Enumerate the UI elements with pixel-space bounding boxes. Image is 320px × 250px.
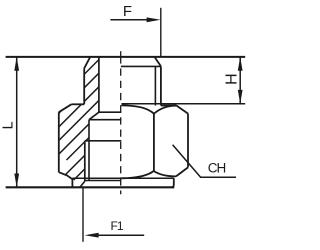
F dimension line (110, 19, 148, 21)
boss left wall (83, 68, 85, 104)
hex top ledge left (71, 103, 84, 105)
hex top chamfer arc center face (122, 105, 154, 113)
centerline (120, 51, 122, 63)
hex top-left chamfer (59, 104, 72, 112)
cone base line (89, 119, 121, 121)
boss right wall (160, 66, 162, 105)
boss right chamfer (155, 57, 161, 66)
thread end line (85, 180, 121, 182)
mid bore wall / thread line (88, 120, 90, 181)
L arrow up (14, 57, 19, 71)
H arrow up (238, 57, 243, 71)
port bottom line (99, 111, 121, 113)
F1 arrow left (85, 233, 99, 238)
F arrow right (147, 17, 161, 22)
hatching section lines (39, 20, 174, 200)
hex top chamfer arc right face (154, 106, 177, 114)
hex bottom chamfer arc center face (120, 171, 154, 178)
collar right wall (171, 178, 174, 187)
L dimension line (16, 57, 18, 187)
hex top-right chamfer (176, 106, 188, 114)
boss thread root line (154, 66, 156, 105)
L arrow down (14, 174, 19, 188)
hex bottom-right chamfer (176, 167, 188, 176)
svg-text:CH: CH (208, 161, 226, 176)
hex left wall (58, 112, 60, 172)
boss left chamfer (84, 57, 90, 68)
svg-text:F1: F1 (111, 219, 124, 233)
drill cone (89, 112, 99, 120)
svg-text:F: F (123, 3, 132, 20)
collar top line (72, 177, 173, 179)
F1 extension line (82, 188, 84, 242)
collar left wall (71, 179, 73, 188)
hex top face right (161, 105, 177, 107)
bottom face baseline (6, 186, 175, 188)
hex bottom chamfer arc right face (154, 171, 176, 176)
hex right wall (187, 114, 189, 168)
H dimension line (239, 57, 241, 104)
hex bottom-left chamfer (59, 172, 73, 179)
H arrow down (238, 90, 243, 104)
entry chamfer (80, 181, 85, 187)
hex edge vertical (153, 114, 155, 171)
bottom port wall (84, 141, 86, 181)
chamfer base line right half (121, 65, 161, 67)
F extension line (160, 8, 162, 57)
boss base line + H extension (122, 103, 246, 105)
svg-text:L: L (1, 121, 17, 129)
svg-text:H: H (224, 73, 241, 85)
shoulder line (85, 140, 122, 142)
F1 dimension line (95, 234, 144, 236)
CH leader line (173, 145, 236, 177)
top port bore wall (98, 57, 100, 112)
top face line (6, 56, 246, 58)
arrowheads (14, 17, 242, 237)
